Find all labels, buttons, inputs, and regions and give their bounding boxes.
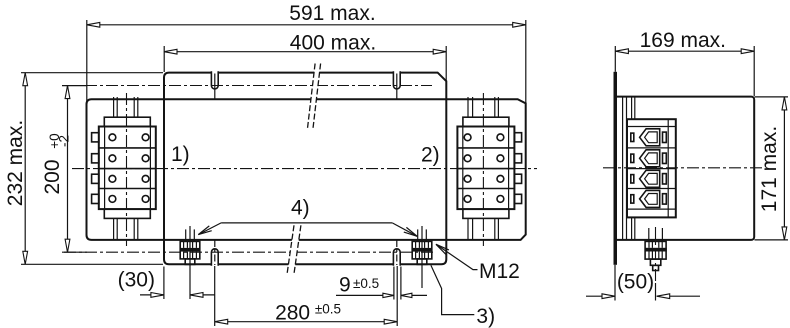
svg-text:200: 200 xyxy=(41,159,64,194)
svg-text:232 max.: 232 max. xyxy=(4,120,27,206)
svg-text:280: 280 xyxy=(275,301,310,324)
svg-text:±0.5: ±0.5 xyxy=(315,302,341,317)
svg-text:171 max.: 171 max. xyxy=(758,126,781,212)
svg-text:169 max.: 169 max. xyxy=(640,29,726,52)
svg-text:(50): (50) xyxy=(617,271,654,294)
svg-text:4): 4) xyxy=(291,197,310,220)
svg-text:2): 2) xyxy=(421,144,440,167)
svg-text:±0.5: ±0.5 xyxy=(353,276,379,291)
svg-text:-2: -2 xyxy=(57,135,72,147)
svg-text:(30): (30) xyxy=(118,269,155,292)
svg-text:1): 1) xyxy=(171,143,190,166)
svg-text:M12: M12 xyxy=(479,260,520,283)
svg-text:9: 9 xyxy=(339,273,351,296)
svg-text:591 max.: 591 max. xyxy=(289,2,375,25)
svg-text:400 max.: 400 max. xyxy=(290,32,376,55)
svg-text:3): 3) xyxy=(476,305,495,328)
